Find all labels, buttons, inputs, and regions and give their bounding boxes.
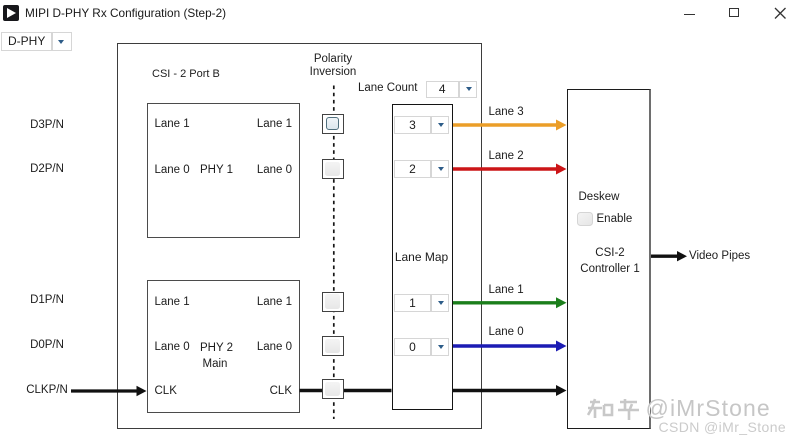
wire Lane 0 blue <box>452 341 567 352</box>
window title <box>25 7 226 20</box>
PHY1 pin Lane 1 left <box>155 118 190 131</box>
maximize button <box>729 8 739 17</box>
PHY2 pin Lane 0 left <box>155 341 190 354</box>
PHY1 pin Lane 1 right <box>222 118 292 131</box>
wire CLK to controller <box>452 385 567 396</box>
label Lane Count <box>358 82 417 95</box>
PHY2 pin CLK right <box>222 385 292 398</box>
PHY1 pin Lane 0 right <box>222 164 292 177</box>
label Lane 1 <box>489 284 524 297</box>
wire Lane 3 orange <box>452 120 567 131</box>
lane map combobox 2 <box>394 160 449 178</box>
label CSI-2 <box>570 247 651 260</box>
D-PHY combobox dropdown button <box>52 32 72 51</box>
wire CLK between PHY2 and lane map <box>300 389 392 392</box>
label Enable <box>597 213 633 226</box>
D-PHY combobox text <box>1 32 52 51</box>
lane map combobox 0 <box>394 338 449 356</box>
wire Lane 1 green <box>452 297 567 308</box>
polarity dashed line <box>333 86 335 420</box>
PHY2 pin Lane 0 right <box>222 341 292 354</box>
minimize button <box>684 14 695 15</box>
checkbox polarity lane3 (focused) <box>322 114 344 134</box>
port label D2P/N <box>12 163 82 176</box>
outer box CSI-2 Port B <box>117 43 482 429</box>
lane map combobox 3 <box>394 116 449 134</box>
PHY2 pin Lane 1 right <box>222 296 292 309</box>
port label D1P/N <box>12 294 82 307</box>
Lane Map box <box>392 104 453 410</box>
checkbox polarity lane0 <box>322 336 344 356</box>
PHY2 pin Lane 1 left <box>155 296 190 309</box>
PHY1 box <box>147 103 300 238</box>
checkbox polarity lane1 <box>322 292 344 312</box>
label Deskew <box>579 191 620 204</box>
label Controller 1 <box>570 263 651 276</box>
wire CLKP/N input arrow <box>71 386 147 396</box>
wire Video Pipes output <box>651 251 688 261</box>
watermark CSDN <box>659 419 786 435</box>
label Lane 3 <box>489 106 524 119</box>
PHY2 name <box>200 342 233 355</box>
checkbox Enable <box>577 212 593 227</box>
label Lane Map <box>392 251 451 264</box>
label Lane 2 <box>489 150 524 163</box>
PHY2 box <box>147 280 300 414</box>
port label CLKP/N <box>12 384 82 397</box>
PHY1 name <box>200 164 233 177</box>
checkbox polarity lane2 <box>322 159 344 179</box>
close button <box>774 7 786 20</box>
wire Lane 2 red <box>452 164 567 175</box>
PHY2 pin CLK left <box>155 385 177 398</box>
label Lane 0 <box>489 326 524 339</box>
label CSI - 2 Port B <box>152 68 220 81</box>
Lane Count combobox <box>426 81 478 98</box>
port label D0P/N <box>12 339 82 352</box>
label Polarity Inversion <box>283 53 383 81</box>
PHY2 name line2 <box>203 358 228 371</box>
PHY1 pin Lane 0 left <box>155 164 190 177</box>
window icon <box>3 5 19 21</box>
CSI-2 Controller box <box>567 89 652 429</box>
label Video Pipes <box>689 250 750 263</box>
watermark @iMrStone <box>646 395 771 422</box>
lane map combobox 1 <box>394 294 449 312</box>
port label D3P/N <box>12 119 82 132</box>
watermark zhihu characters <box>587 398 641 422</box>
checkbox polarity clk <box>322 379 344 399</box>
